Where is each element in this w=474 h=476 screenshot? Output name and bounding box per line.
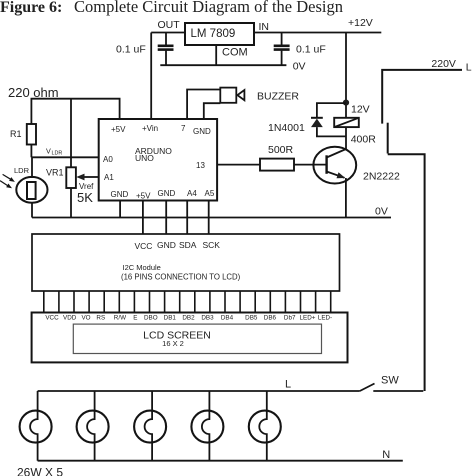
wire contact to SW xyxy=(388,154,425,391)
svg-text:RS: RS xyxy=(96,315,105,322)
svg-text:VDD: VDD xyxy=(63,315,77,322)
regulator U2 LM 7809 xyxy=(185,23,254,45)
svg-text:N: N xyxy=(382,449,390,461)
svg-text:400R: 400R xyxy=(351,133,377,145)
wire A5 to SCK xyxy=(208,201,210,234)
I2C module xyxy=(32,234,340,291)
svg-text:E: E xyxy=(133,315,137,322)
wire GND pin drop xyxy=(119,201,121,218)
svg-text:DB5: DB5 xyxy=(245,315,258,322)
svg-text:12V: 12V xyxy=(351,104,370,116)
svg-text:GND: GND xyxy=(111,190,129,199)
svg-text:I2C Module: I2C Module xyxy=(123,263,161,272)
capacitor C2 0.1uF xyxy=(281,33,283,46)
svg-text:COM: COM xyxy=(222,47,248,59)
svg-text:OUT: OUT xyxy=(158,19,181,31)
svg-text:DB6: DB6 xyxy=(264,315,277,322)
svg-text:Complete Circuit Diagram of th: Complete Circuit Diagram of the Design xyxy=(74,0,343,16)
lamp LP1 xyxy=(20,391,52,461)
svg-text:LED+: LED+ xyxy=(300,315,316,322)
svg-text:BUZZER: BUZZER xyxy=(257,91,299,103)
svg-text:VO: VO xyxy=(81,315,90,322)
wire GND to GND xyxy=(165,201,167,234)
arduino U1 xyxy=(99,119,217,201)
LCD screen box xyxy=(73,324,321,353)
svg-text:A0: A0 xyxy=(103,155,113,164)
svg-text:VR1: VR1 xyxy=(46,168,64,178)
LCD outer box xyxy=(32,313,348,363)
wire VLDR to A0 xyxy=(31,156,98,158)
svg-text:220V: 220V xyxy=(431,58,456,70)
I2C to LCD pins xyxy=(44,291,331,313)
lamp LP3 xyxy=(134,391,166,461)
svg-text:A4: A4 xyxy=(187,189,197,198)
svg-text:LM 7809: LM 7809 xyxy=(191,28,236,40)
svg-text:DB1: DB1 xyxy=(164,315,177,322)
lamp LP4 xyxy=(191,391,223,461)
wire A4 to SDA xyxy=(186,201,188,234)
wire +5V to VCC xyxy=(142,201,144,234)
svg-text:L: L xyxy=(285,379,291,391)
svg-text:26W X 5: 26W X 5 xyxy=(17,466,63,476)
potentiometer VR1 xyxy=(70,99,72,167)
svg-text:A5: A5 xyxy=(205,189,215,198)
svg-text:5K: 5K xyxy=(77,190,93,205)
svg-text:UNO: UNO xyxy=(135,153,154,163)
resistor R2 500R xyxy=(217,164,260,166)
svg-text:220 ohm: 220 ohm xyxy=(8,85,59,100)
wire lamp top rail xyxy=(38,390,360,392)
svg-text:DBO: DBO xyxy=(144,315,158,322)
svg-text:13: 13 xyxy=(196,161,205,170)
svg-text:LED-: LED- xyxy=(318,315,332,322)
transistor Q1 2N2222 xyxy=(313,147,356,184)
svg-text:GND: GND xyxy=(157,240,176,250)
svg-text:500R: 500R xyxy=(268,144,294,156)
LCD pin labels xyxy=(45,315,332,322)
svg-text:Db7: Db7 xyxy=(284,315,296,322)
wire gnd to buzzer xyxy=(204,103,221,119)
svg-text:SW: SW xyxy=(381,375,399,387)
svg-text:GND: GND xyxy=(193,127,211,136)
svg-text:LDR: LDR xyxy=(14,166,30,175)
relay K1 coil xyxy=(334,118,359,127)
svg-text:7: 7 xyxy=(181,124,186,133)
svg-text:0V: 0V xyxy=(293,61,306,73)
node junction dot xyxy=(343,100,349,106)
wire relay to collector xyxy=(345,127,347,150)
svg-text:LDR: LDR xyxy=(52,151,63,157)
svg-text:L: L xyxy=(466,61,472,73)
svg-text:Figure 6:: Figure 6: xyxy=(0,0,62,16)
svg-text:16 X 2: 16 X 2 xyxy=(162,339,184,348)
svg-text:SDA: SDA xyxy=(179,240,197,250)
wire 0V main rail xyxy=(32,217,391,219)
lamp LP2 xyxy=(77,391,109,461)
svg-text:IN: IN xyxy=(259,21,270,33)
svg-text:0.1 uF: 0.1 uF xyxy=(296,44,326,56)
svg-text:VCC: VCC xyxy=(45,315,59,322)
svg-text:GND: GND xyxy=(158,189,176,198)
svg-text:(16 PINS CONNECTION TO LCD): (16 PINS CONNECTION TO LCD) xyxy=(121,273,241,282)
svg-text:VCC: VCC xyxy=(135,241,153,251)
svg-text:R/W: R/W xyxy=(114,315,126,322)
capacitor C1 0.1uF xyxy=(165,33,167,46)
lamp LP5 xyxy=(249,391,281,461)
svg-text:+12V: +12V xyxy=(348,17,373,29)
wire 220V L line xyxy=(382,70,462,124)
svg-text:A1: A1 xyxy=(104,173,114,182)
relay contact xyxy=(387,123,389,154)
VR1 wiper to A1 xyxy=(83,176,99,178)
svg-text:+5V: +5V xyxy=(111,125,126,134)
svg-text:V: V xyxy=(46,147,51,156)
svg-text:0.1 uF: 0.1 uF xyxy=(116,44,146,56)
diode D1 1N4001 xyxy=(317,103,346,118)
svg-text:R1: R1 xyxy=(10,129,22,139)
buzzer LS1 xyxy=(220,88,236,103)
wire COM pin xyxy=(215,45,217,65)
wire +5V rail left xyxy=(31,99,120,119)
svg-text:+5V: +5V xyxy=(136,192,151,201)
svg-text:DB3: DB3 xyxy=(201,315,214,322)
resistor R1 xyxy=(30,99,32,124)
wire +Vin drop xyxy=(150,33,152,120)
wire pin7 to buzzer xyxy=(187,90,220,120)
LDR xyxy=(31,157,33,178)
wire IN to +12V xyxy=(254,32,381,34)
svg-text:0V: 0V xyxy=(375,205,388,217)
svg-text:SCK: SCK xyxy=(203,240,221,250)
svg-text:2N2222: 2N2222 xyxy=(363,170,400,182)
wire N rail xyxy=(38,460,403,462)
svg-text:1N4001: 1N4001 xyxy=(268,122,305,134)
svg-text:DB4: DB4 xyxy=(221,315,234,322)
wire +12V drop to relay xyxy=(345,33,347,118)
arrows to LDR xyxy=(3,174,11,179)
svg-text:+Vin: +Vin xyxy=(142,124,158,133)
wire OUT node xyxy=(151,32,185,34)
title caption xyxy=(0,0,343,16)
svg-text:DB2: DB2 xyxy=(182,315,195,322)
wire 0V top rail xyxy=(160,64,286,66)
